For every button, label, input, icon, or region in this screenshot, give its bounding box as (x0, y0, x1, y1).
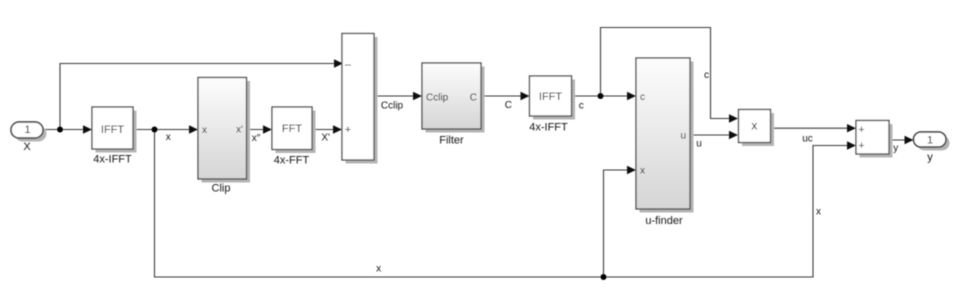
svg-text:4x-FFT: 4x-FFT (274, 155, 310, 167)
svg-text:x: x (376, 264, 381, 275)
svg-text:x: x (751, 119, 757, 133)
svg-text:c: c (704, 70, 709, 81)
svg-text:1: 1 (24, 124, 30, 136)
svg-text:+: + (858, 140, 864, 152)
svg-text:C: C (505, 100, 512, 111)
svg-text:4x-IFFT: 4x-IFFT (93, 154, 132, 166)
svg-text:x: x (640, 166, 645, 177)
svg-text:X: X (23, 141, 31, 153)
svg-text:y: y (893, 143, 898, 154)
svg-text:x': x' (236, 125, 243, 136)
svg-text:Cclip: Cclip (426, 92, 449, 103)
svg-text:x″: x″ (252, 133, 261, 144)
svg-text:Cclip: Cclip (381, 101, 404, 112)
svg-text:x: x (202, 125, 207, 136)
svg-text:+: + (858, 124, 864, 136)
svg-text:u-finder: u-finder (645, 215, 683, 227)
svg-text:c: c (579, 101, 584, 112)
svg-text:FFT: FFT (282, 123, 302, 135)
svg-text:u: u (696, 139, 702, 150)
svg-text:–: – (345, 59, 352, 71)
svg-text:+: + (345, 124, 351, 136)
svg-text:C: C (470, 92, 477, 103)
svg-text:X': X' (321, 133, 330, 144)
svg-text:x: x (816, 207, 821, 218)
svg-text:x: x (166, 132, 171, 143)
svg-text:y: y (927, 152, 933, 164)
svg-text:4x-IFFT: 4x-IFFT (529, 122, 568, 134)
svg-text:Clip: Clip (212, 182, 231, 194)
svg-text:1: 1 (927, 135, 933, 147)
svg-text:u: u (680, 131, 686, 142)
svg-text:IFFT: IFFT (539, 91, 562, 103)
svg-text:Filter: Filter (439, 135, 464, 147)
svg-text:IFFT: IFFT (101, 124, 124, 136)
svg-text:c: c (640, 92, 645, 103)
svg-text:uc: uc (802, 134, 813, 145)
